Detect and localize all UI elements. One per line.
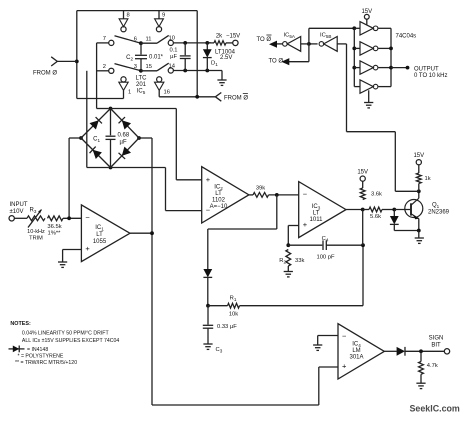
wire in inv3 xyxy=(354,67,360,69)
pin 10 circle xyxy=(168,40,173,45)
resistor 5.6k xyxy=(363,209,369,211)
resistor 3.6k pullup xyxy=(360,188,365,200)
svg-text:LM: LM xyxy=(352,348,360,354)
wire bridge right to IC1 out xyxy=(139,137,152,139)
svg-text:0.68: 0.68 xyxy=(118,133,130,139)
switch blade 15-14 xyxy=(157,63,169,71)
svg-text:BIT: BIT xyxy=(431,343,441,349)
svg-text:IC1: IC1 xyxy=(95,225,104,232)
svg-text:NOTES:: NOTES: xyxy=(10,321,31,327)
wire 15V to inv1 xyxy=(366,19,368,25)
svg-text:33k: 33k xyxy=(295,258,304,264)
diode bridge upper-right xyxy=(122,120,131,129)
svg-text:0.01*: 0.01* xyxy=(149,54,164,60)
svg-text:10-kHz: 10-kHz xyxy=(27,229,45,235)
capacitor C1 0.68uF xyxy=(110,109,112,136)
svg-text:+: + xyxy=(303,220,308,229)
node FROM phi junction xyxy=(75,60,79,64)
node stack out 2 xyxy=(389,47,393,51)
wire diode to node xyxy=(207,277,209,306)
svg-text:10: 10 xyxy=(169,36,175,42)
wire IC3 plus xyxy=(288,225,298,227)
wire left vertical from top rail xyxy=(76,11,78,99)
svg-text:+: + xyxy=(342,361,347,370)
wire diode to term xyxy=(405,350,445,352)
svg-text:15V: 15V xyxy=(361,9,372,15)
svg-text:16: 16 xyxy=(164,90,170,96)
pin 16 stem xyxy=(158,90,160,96)
ground IC4 xyxy=(313,344,322,346)
pin 7 circle xyxy=(109,40,114,45)
svg-text:IC5B: IC5B xyxy=(320,33,331,40)
wire out inv2 xyxy=(378,47,391,49)
wire phi node up to stack xyxy=(308,28,310,44)
arrow FROM phi-bar xyxy=(215,93,221,97)
wire phi rail bottom xyxy=(77,98,124,100)
svg-text:15: 15 xyxy=(146,64,152,70)
op-amp IC1 LT1055 xyxy=(81,205,129,262)
wire FROM phi-bar row xyxy=(159,96,215,98)
svg-text:−: − xyxy=(85,213,90,222)
svg-text:15V: 15V xyxy=(357,170,368,176)
wire junction down to diode xyxy=(276,195,278,229)
node C4 right xyxy=(361,243,365,247)
resistor R1 10k xyxy=(228,303,240,308)
svg-text:FROM Ø: FROM Ø xyxy=(224,96,248,102)
comparator IC4 LM301A xyxy=(338,324,384,379)
inverter 74C04 a xyxy=(360,22,373,35)
note diode symbol xyxy=(9,348,25,350)
node 0.1uF bottom xyxy=(183,69,187,73)
ground Q1 emitter xyxy=(418,231,420,239)
wire bridge edge TR xyxy=(111,109,140,139)
node stack in 3 xyxy=(352,66,356,70)
resistor R2 33k xyxy=(286,250,291,267)
wire 2k to term xyxy=(226,42,233,44)
diode feedback xyxy=(203,269,212,277)
node bridge top xyxy=(109,107,113,111)
svg-text:TO Ø: TO Ø xyxy=(257,37,272,43)
wire IC5B out to node xyxy=(309,43,318,45)
svg-text:TO Ø: TO Ø xyxy=(269,59,284,65)
switch blade 7-6 xyxy=(115,36,141,44)
node output xyxy=(406,66,410,70)
wire pin7 to bridge top xyxy=(96,43,98,109)
svg-text:1055: 1055 xyxy=(93,239,107,245)
svg-text:C1: C1 xyxy=(93,136,100,143)
wire 4.7k gnd xyxy=(420,374,422,383)
potentiometer R3 xyxy=(27,216,45,221)
svg-text:LT: LT xyxy=(313,211,320,217)
svg-text:301A: 301A xyxy=(349,355,363,361)
wire R1 to C4 node xyxy=(240,305,364,307)
svg-text:INPUT: INPUT xyxy=(10,202,28,208)
node 3 xyxy=(139,69,143,73)
inverter 74C04 c xyxy=(360,61,373,74)
wire stack input bus xyxy=(353,28,355,86)
svg-text:SeekIC.com: SeekIC.com xyxy=(410,404,460,414)
wire IC3 out xyxy=(346,209,363,211)
inverter IC5A xyxy=(287,37,301,52)
switch blade 11-10 xyxy=(157,35,169,43)
svg-text:1: 1 xyxy=(128,90,131,96)
svg-text:C3: C3 xyxy=(216,347,223,354)
diode D1 LT1004 xyxy=(206,43,208,50)
resistor 39k xyxy=(253,193,269,198)
wire TO phi xyxy=(308,44,310,62)
wire top rail (switch drive) xyxy=(77,10,197,12)
svg-text:µF: µF xyxy=(120,140,127,146)
wire 39k to IC3 xyxy=(269,194,299,196)
node C4 left xyxy=(286,243,290,247)
svg-text:0.1: 0.1 xyxy=(169,48,177,54)
op-amp IC2 LT1102 xyxy=(202,167,249,223)
svg-text:7: 7 xyxy=(103,36,106,42)
wire in inv1 xyxy=(354,27,360,29)
svg-text:+: + xyxy=(85,244,90,253)
wire out inv1 xyxy=(378,27,391,29)
capacitor C4 100pF xyxy=(288,244,322,246)
svg-text:D1: D1 xyxy=(211,61,218,68)
node Q1 base xyxy=(392,208,396,212)
svg-text:* = POLYSTYRENE: * = POLYSTYRENE xyxy=(18,354,64,360)
node stack in 1 xyxy=(352,26,356,30)
switch control pin 1 xyxy=(121,77,126,82)
wire out inv4 xyxy=(378,86,391,88)
svg-text:6: 6 xyxy=(134,37,137,43)
switch control pin 9 xyxy=(155,19,164,27)
wire bridge top to IC2 plus xyxy=(111,108,177,110)
svg-text:1%**: 1%** xyxy=(48,231,62,237)
wire in inv2 xyxy=(354,47,360,49)
node 6 xyxy=(139,41,143,45)
wire IC1 output xyxy=(130,232,152,234)
inverter 74C04 d xyxy=(360,80,373,93)
wire emitter xyxy=(418,219,420,231)
wire stack output bus xyxy=(390,28,392,86)
ground bottom row xyxy=(221,71,223,81)
wire collector xyxy=(418,191,420,198)
node stack out 3 xyxy=(389,66,393,70)
inverter 74C04 b xyxy=(360,42,373,55)
node IC1 output xyxy=(150,231,154,235)
svg-text:0.04% LINEARITY 50 PPM/°C DRIF: 0.04% LINEARITY 50 PPM/°C DRIFT xyxy=(22,331,110,337)
svg-text:11: 11 xyxy=(145,37,151,43)
pin 1 stem xyxy=(123,90,125,98)
wire right vertical to FROM phi-bar row xyxy=(196,11,198,97)
wire IC4 plus loop xyxy=(319,366,338,368)
ground IC1 xyxy=(58,261,67,263)
wire 6 to 11 xyxy=(141,42,157,44)
node IC3 out xyxy=(361,208,365,212)
svg-text:R1: R1 xyxy=(230,296,237,303)
comparator IC3 LT1011 xyxy=(299,182,346,238)
ground R2 xyxy=(284,271,293,273)
wire bridge edge BR xyxy=(111,138,140,168)
wire out inv3 xyxy=(378,67,391,69)
svg-text:= IN4148: = IN4148 xyxy=(27,347,48,353)
svg-text:Q1: Q1 xyxy=(432,203,440,210)
wire node down to C4 xyxy=(362,210,364,246)
node input junction xyxy=(67,216,71,220)
terminal 15V 74C04 xyxy=(364,14,369,19)
svg-text:+: + xyxy=(206,175,211,184)
svg-text:0 TO 10 kHz: 0 TO 10 kHz xyxy=(414,73,447,79)
svg-text:FROM Ø: FROM Ø xyxy=(33,71,57,77)
arrow TO phi xyxy=(281,58,289,65)
diode bridge lower-right xyxy=(122,147,131,156)
terminal 15V Q1 xyxy=(416,160,421,165)
wire pin2 to bridge bottom xyxy=(86,71,88,168)
node phi-bar junction xyxy=(195,95,199,99)
svg-text:TRIM: TRIM xyxy=(29,236,43,242)
node bridge bottom xyxy=(109,166,113,170)
svg-text:2k: 2k xyxy=(216,34,223,40)
svg-text:C4: C4 xyxy=(322,236,329,243)
resistor 36.5k xyxy=(48,216,64,221)
svg-text:2.5V: 2.5V xyxy=(220,55,232,61)
wire IC5A out xyxy=(277,43,283,45)
svg-text:5.6k: 5.6k xyxy=(370,214,381,220)
svg-text:0.33 µF: 0.33 µF xyxy=(217,324,237,330)
terminal -15V xyxy=(233,40,238,45)
wire 3 to 15 xyxy=(141,70,157,72)
svg-text:OUTPUT: OUTPUT xyxy=(414,66,439,72)
pin 2 circle xyxy=(109,68,114,73)
wire IC4 out xyxy=(384,350,397,352)
wire output xyxy=(391,67,408,69)
capacitor C3 0.33uF xyxy=(207,306,209,325)
diode base clamp xyxy=(393,210,395,217)
wire reference rail top xyxy=(173,42,211,44)
wire bridge edge TL xyxy=(81,109,111,139)
pin 9 stem xyxy=(158,11,160,19)
svg-text:A=−10: A=−10 xyxy=(210,204,228,210)
svg-text:ALL ICs ±15V SUPPLIES EXCEPT 7: ALL ICs ±15V SUPPLIES EXCEPT 74C04 xyxy=(22,338,120,344)
terminal SIGN BIT xyxy=(444,349,449,354)
svg-text:74C04s: 74C04s xyxy=(396,34,417,40)
node emitter xyxy=(417,229,421,233)
svg-text:9: 9 xyxy=(162,13,165,19)
diode bridge upper-left xyxy=(90,120,99,129)
svg-text:1k: 1k xyxy=(425,176,431,182)
svg-text:14: 14 xyxy=(169,64,176,70)
svg-text:** = TRW/IRC MTR/5/+120: ** = TRW/IRC MTR/5/+120 xyxy=(15,360,77,366)
node bridge right xyxy=(137,136,141,140)
svg-text:39k: 39k xyxy=(256,186,265,192)
wire node to IC5A in xyxy=(301,43,309,45)
wire clamp to emitter xyxy=(394,230,419,232)
svg-text:R2: R2 xyxy=(279,258,286,265)
svg-text:1011: 1011 xyxy=(310,217,324,223)
node D1 bottom xyxy=(205,69,209,73)
wire to IC1 minus xyxy=(63,217,81,219)
svg-text:−15V: −15V xyxy=(226,34,240,40)
terminal 15V IC3 xyxy=(360,176,365,181)
svg-text:−: − xyxy=(303,190,308,199)
svg-text:100 pF: 100 pF xyxy=(316,255,335,261)
ground 4.7k xyxy=(416,382,425,384)
ground 74C04 xyxy=(368,90,370,102)
wire pin7 left xyxy=(97,42,109,44)
pin 14 circle xyxy=(168,68,173,73)
svg-text:±10V: ±10V xyxy=(10,209,24,215)
resistor 1k xyxy=(418,165,420,173)
wire bridge bottom to IC2 minus xyxy=(111,167,166,169)
svg-text:3: 3 xyxy=(134,64,137,70)
switch control pin 8 xyxy=(119,19,128,27)
svg-text:SIGN: SIGN xyxy=(429,336,444,342)
resistor 4.7k xyxy=(420,351,422,361)
wire pin2 left xyxy=(97,70,109,72)
node 0.1uF top xyxy=(183,41,187,45)
node phi xyxy=(307,42,311,46)
switch control pin 16 xyxy=(157,77,162,82)
inverter IC5B xyxy=(324,37,338,52)
resistor 2k xyxy=(207,42,214,44)
svg-text:LTC: LTC xyxy=(136,76,148,82)
svg-text:8: 8 xyxy=(127,13,130,19)
wire collector feedback xyxy=(395,190,419,192)
svg-text:10k: 10k xyxy=(229,312,238,318)
svg-text:−: − xyxy=(342,332,347,341)
node bridge left xyxy=(79,136,83,140)
wire bridge left to input node xyxy=(69,137,81,139)
wire R2 gnd xyxy=(287,266,289,272)
svg-text:IC5: IC5 xyxy=(137,89,146,96)
wire bridge edge BL xyxy=(81,138,111,168)
svg-text:15V: 15V xyxy=(413,153,424,159)
svg-text:C2: C2 xyxy=(126,55,133,62)
capacitor 0.1uF xyxy=(184,43,186,55)
wire ground rail bottom row xyxy=(173,70,222,72)
capacitor C2 xyxy=(140,43,142,54)
transistor Q1 2N2369 xyxy=(394,209,410,211)
ground C3 xyxy=(203,343,212,345)
diode bridge lower-left xyxy=(93,150,102,159)
wire pullup top xyxy=(362,181,364,188)
pin 8 stem xyxy=(123,11,125,19)
svg-text:IC5A: IC5A xyxy=(284,33,296,40)
node 39k junction xyxy=(275,193,279,197)
svg-text:4.7k: 4.7k xyxy=(427,363,438,369)
svg-text:R3: R3 xyxy=(30,208,37,215)
svg-text:µF: µF xyxy=(170,54,177,60)
terminal INPUT xyxy=(9,216,14,221)
arrow TO phi-bar xyxy=(269,41,277,48)
node sign bit xyxy=(419,349,423,353)
node D1 top xyxy=(205,41,209,45)
wire IC4 minus to gnd xyxy=(318,335,338,337)
svg-text:LT: LT xyxy=(215,191,222,197)
svg-text:LT: LT xyxy=(96,232,103,238)
arrow FROM phi input xyxy=(51,57,57,62)
svg-text:3.6k: 3.6k xyxy=(371,192,382,198)
switch blade 2-3 xyxy=(115,64,141,71)
svg-text:2: 2 xyxy=(103,64,106,70)
svg-text:36.5k: 36.5k xyxy=(47,224,61,230)
svg-text:1102: 1102 xyxy=(212,198,226,204)
wire FROM phi to junction xyxy=(57,60,77,62)
wire node to R1 xyxy=(208,305,228,307)
svg-text:201: 201 xyxy=(136,82,147,88)
diode sign bit xyxy=(397,347,405,356)
svg-text:2N2369: 2N2369 xyxy=(428,210,450,216)
wire IC2 out xyxy=(249,194,253,196)
node integrator xyxy=(206,304,210,308)
wire input to pot xyxy=(14,217,27,219)
node collector xyxy=(417,189,421,193)
wire IC1 plus to gnd xyxy=(63,249,82,251)
node stack in 2 xyxy=(352,47,356,51)
